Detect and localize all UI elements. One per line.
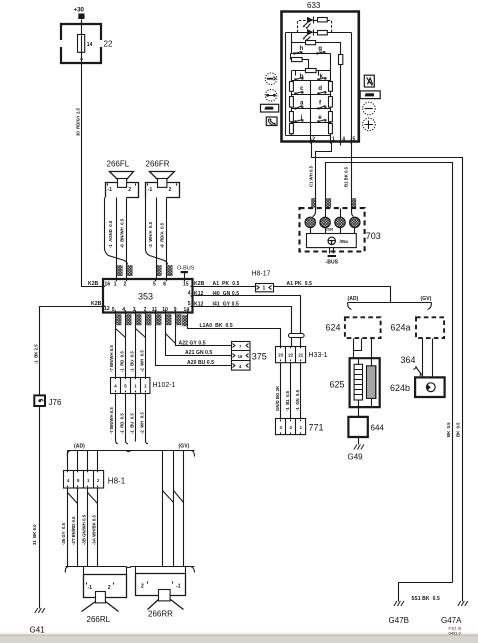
svg-text:A20 BU 0.5: A20 BU 0.5 [187,360,214,366]
connector code K2A (pin2 wire) [128,266,133,276]
svg-text:K2B: K2B [91,301,102,307]
inner left rail [285,33,287,136]
wire 633 pin2 to right edge (G47A) [312,142,463,602]
wire 266FL pin1 lane [105,198,128,265]
svg-text:2: 2 [312,136,315,142]
svg-text:J76: J76 [49,398,62,407]
svg-text:L1A0 BK 0.5: L1A0 BK 0.5 [200,323,233,329]
svg-text:G49: G49 [348,453,364,462]
svg-text:21: 21 [298,352,303,357]
wire 353 pin5 I41 GY to H33-1 pin22 [193,307,292,347]
matrix buses [292,81,331,123]
icon track (left circle 2) [265,90,277,102]
ferrite capsule on H33-1 wires [289,334,305,338]
O-BUS stub at pin15 [184,273,186,280]
wire into 353 pin2 [126,198,128,280]
svg-text:266RR: 266RR [148,610,173,619]
svg-text:O-BUS: O-BUS [177,266,195,272]
wire 625 to 644 [358,408,360,417]
svg-text:2: 2 [169,187,172,193]
wire 266FR pin1 lane [146,198,168,265]
matrix middle rail (pin2) [310,81,312,144]
svg-text:g: g [318,45,322,52]
svg-text:-1 BU 0.5: -1 BU 0.5 [129,351,134,372]
wires H33-1 to 771 [281,363,301,419]
svg-text:16: 16 [238,354,243,359]
svg-text:A22 GY 0.5: A22 GY 0.5 [179,340,206,346]
wire to ground G47B, 551 BK 0.5 [399,583,453,602]
svg-text:-1 RD 0.5: -1 RD 0.5 [119,413,124,434]
svg-text:5: 5 [112,307,115,313]
contact roller 703 [300,208,365,251]
svg-text:14: 14 [184,307,190,313]
svg-text:I41 GY 0.5: I41 GY 0.5 [213,301,240,307]
harness drop wires left to H8-1 [68,451,98,471]
wire +30 to fuse [81,20,83,36]
wire 703 ring2 to right edge (G47B) [326,163,453,583]
wire 353 pin14 L1A0 BK to H33-1 pin23 [188,313,281,347]
wire 353 pin11 A20 BU to 375 pin4 [156,313,232,366]
LED branch 2 [286,32,308,34]
svg-text:644: 644 [371,424,385,433]
svg-text:-BUS: -BUS [326,260,339,266]
svg-text:I40 GN 0.5: I40 GN 0.5 [213,291,240,297]
harness rail (AD)/(GV) [68,450,195,452]
svg-text:266RL: 266RL [87,615,111,624]
svg-text:-7 BN/WH 0.5: -7 BN/WH 0.5 [109,345,114,372]
svg-text:-1 AGND 0.5: -1 AGND 0.5 [108,220,113,248]
amplifier connector 771 [276,419,306,435]
svg-text:1: 1 [114,282,117,288]
svg-text:5S1 BK 0.5: 5S1 BK 0.5 [412,596,440,602]
ground G41 [35,608,45,613]
filter 644 [348,417,367,437]
svg-text:633: 633 [307,1,321,10]
fusebox 22 [61,24,101,63]
resistor (vertical) [339,55,343,65]
svg-text:4: 4 [122,307,125,313]
wire 353 pin9 A22 GY to 375 pin7 [176,313,232,346]
svg-text:1: 1 [332,136,335,142]
wires 624 to 625 [353,339,355,359]
connector H33-1 [276,347,306,363]
svg-text:2: 2 [128,187,131,193]
svg-text:A21 GN 0.5: A21 GN 0.5 [185,350,213,356]
connector code K2A (pin1 wire) [118,266,123,276]
wire 353 pin4 I40 GN to H33-1 pin21 [193,296,301,347]
svg-text:BK 0.5: BK 0.5 [446,422,451,437]
amplifier 624 (dashed) [345,317,381,338]
speaker 266RL [84,567,127,575]
svg-text:-2 WH 0.5: -2 WH 0.5 [139,412,144,434]
svg-text:1: 1 [263,285,266,291]
svg-text:624b: 624b [390,383,410,393]
wire A1 PK 0.5 to 624 bracket [274,287,391,303]
svg-text:(AD): (AD) [74,443,85,449]
633 pin ticks [312,140,352,144]
svg-text:16: 16 [105,282,111,288]
left resistor column [291,81,293,136]
svg-text:K2B: K2B [88,281,99,287]
svg-text:-1 BK 2.5: -1 BK 2.5 [34,344,39,364]
svg-text:h: h [300,45,304,52]
svg-text:624: 624 [326,323,341,333]
svg-text:30 RD/GY 2.5: 30 RD/GY 2.5 [76,107,81,136]
wire 644 to ground G49 [358,438,360,445]
svg-text:(AD): (AD) [348,296,359,302]
connector code K2A (FR pin wires) [157,266,162,276]
window bottom gray band [0,633,478,635]
svg-text:624a: 624a [391,323,411,333]
svg-text:-6 BN/WH 0.5: -6 BN/WH 0.5 [120,218,125,248]
wires below H8-1 to bottom rail [68,488,98,567]
svg-text:15: 15 [183,282,189,288]
svg-text:266FL: 266FL [107,160,130,169]
svg-text:-36 GY 0.5: -36 GY 0.5 [61,522,66,545]
svg-text:2: 2 [108,585,111,591]
wire into 353 pin6 [166,198,168,280]
audio head unit 353 [103,279,193,313]
svg-text:2: 2 [124,282,127,288]
svg-text:14: 14 [87,42,93,48]
svg-text:-1 RD 0.5: -1 RD 0.5 [119,351,124,372]
svg-text:-1 GN 0.5: -1 GN 0.5 [295,389,300,411]
wires 624a to 624b [423,339,433,378]
twisted pair marks right [163,491,184,503]
svg-text:-3T BN/RD 0.5: -3T BN/RD 0.5 [71,516,76,545]
353 pin ticks [117,279,185,281]
svg-text:G41: G41 [30,626,46,635]
LED branch 1 (dashed) [298,21,308,33]
twisted pair marks left [68,493,78,504]
pin4 rail [340,65,342,144]
svg-text:BK 0.5: BK 0.5 [455,422,460,437]
svg-text:C1 WH 0.5: C1 WH 0.5 [309,165,314,187]
svg-text:-3A WH/BK 0.5: -3A WH/BK 0.5 [91,515,96,545]
svg-text:375: 375 [252,352,267,362]
steering wheel unit in 703 [307,234,357,248]
icon phone (left square) [266,117,277,126]
resistor R1 [318,18,328,22]
svg-text:703: 703 [366,231,381,241]
switch g [318,52,325,54]
connector codes K2A under 353 pins [117,315,122,326]
svg-text:266FR: 266FR [146,160,170,169]
svg-text:K12: K12 [194,301,204,307]
svg-text:771: 771 [309,423,324,433]
antenna element 625 [350,358,380,407]
svg-text:-1 B1 0.5: -1 B1 0.5 [285,390,290,411]
svg-text:(GV): (GV) [421,296,432,302]
svg-text:+30: +30 [74,7,85,14]
svg-text:G47B: G47B [389,616,409,625]
wires H102-1 down to harness gather point [116,394,119,444]
resistor under h [290,54,292,60]
wire 353 pin15 A1 PK 0.5 [193,286,256,288]
svg-text:K12: K12 [194,291,204,297]
svg-text:23: 23 [278,352,283,357]
wires 353 pins 5,4,3,7 down to H102-1 [116,313,146,378]
svg-text:B1 BK 0.5: B1 BK 0.5 [344,166,349,187]
svg-text:-6 RD/A 0.5: -6 RD/A 0.5 [159,222,164,248]
svg-text:H8-17: H8-17 [252,271,271,278]
svg-text:/05a: /05a [340,239,349,244]
svg-text:(GV): (GV) [179,443,190,449]
svg-text:-1: -1 [108,187,113,193]
twisted pair marks [116,329,126,338]
h/g switch section [291,33,293,54]
antenna amplifier 624a (dashed) [416,317,444,338]
-BUS stub under 703 [330,248,334,254]
svg-text:K2B: K2B [194,281,205,287]
svg-text:H102-1: H102-1 [153,382,176,389]
svg-text:0401.0: 0401.0 [449,630,462,635]
switch h [295,52,302,54]
svg-text:5: 5 [353,136,356,142]
svg-text:31 BK 6.0: 31 BK 6.0 [32,524,37,545]
svg-text:364: 364 [401,355,416,365]
svg-text:A1 PK 0.5: A1 PK 0.5 [287,281,313,287]
icon voice (right square) [364,75,374,87]
icon volume up [363,118,376,131]
icon seek (left circle 1) [265,73,277,85]
pin 4 stub (unconnected) [340,142,342,146]
svg-text:-1: -1 [148,187,153,193]
junction J76 [34,395,45,406]
wire 266FR pin2 to 353 pin5 [156,198,158,280]
svg-text:d: d [318,85,322,92]
right resistor column [330,81,332,144]
svg-text:A1 PK 0.5: A1 PK 0.5 [213,281,240,287]
svg-text:22: 22 [104,40,113,49]
wire 353 pin12 to G41, label 1 BK 2.5 [40,307,104,609]
fuse 14 [78,35,85,53]
svg-text:GN/D BG 2K: GN/D BG 2K [275,385,280,411]
svg-text:12: 12 [104,306,110,312]
svg-text:5: 5 [153,282,156,288]
connector H102-1 [111,378,150,394]
svg-text:-2 WH/A 0.5: -2 WH/A 0.5 [148,221,153,248]
resistor R2 [318,31,328,35]
pin5 rail [351,33,353,144]
svg-text:e: e [318,114,322,121]
svg-text:6: 6 [163,282,166,288]
bracket to 624/624a [348,302,432,304]
icon volume down [363,102,376,115]
wire 266FL pin2 to 353 pin1 [116,198,118,280]
wire 353 pin10 A21 GN to 375 pin16 [166,313,232,356]
connector 375 [232,342,251,371]
svg-text:11: 11 [152,307,158,313]
wire 633 pin1 to 703 ring1, WH 0.5 [313,142,332,217]
svg-text:4: 4 [342,136,345,142]
icon mute (right bar) [360,91,380,99]
svg-text:-3B GN/WH 0.5: -3B GN/WH 0.5 [81,514,86,545]
svg-text:-1: -1 [88,585,93,591]
svg-text:G47A: G47A [441,616,462,625]
speaker 266RR [136,567,186,574]
svg-text:-2 WH 0.5: -2 WH 0.5 [139,350,144,372]
svg-text:-7 BN/WH 0.5: -7 BN/WH 0.5 [109,407,114,434]
svg-text:2336: 2336 [326,228,333,232]
wire 633 pin5 to 703 ring4, BK 0.5 [352,142,354,217]
svg-text:22: 22 [288,352,293,357]
svg-text:-1 BU 0.5: -1 BU 0.5 [129,413,134,434]
svg-text:H33-1: H33-1 [309,352,328,359]
slip ring contacts [340,209,342,218]
harness drop wires right [163,451,184,567]
ground G47A [458,601,468,606]
svg-text:353: 353 [138,292,153,302]
icon mode (left bar) [261,104,279,112]
svg-text:-1: -1 [176,584,181,590]
svg-text:H8-1: H8-1 [108,477,126,486]
svg-text:625: 625 [330,380,345,390]
connector H8-1 [64,471,104,489]
bottom harness rail [66,567,195,568]
keypad matrix top rail + resistor [292,70,331,72]
LED D1 [307,17,314,23]
svg-text:2: 2 [141,584,144,590]
wire fuse to 353 pin16, label 30 RD/GY 2.5 [82,53,104,287]
antenna motor 624b [415,377,445,397]
